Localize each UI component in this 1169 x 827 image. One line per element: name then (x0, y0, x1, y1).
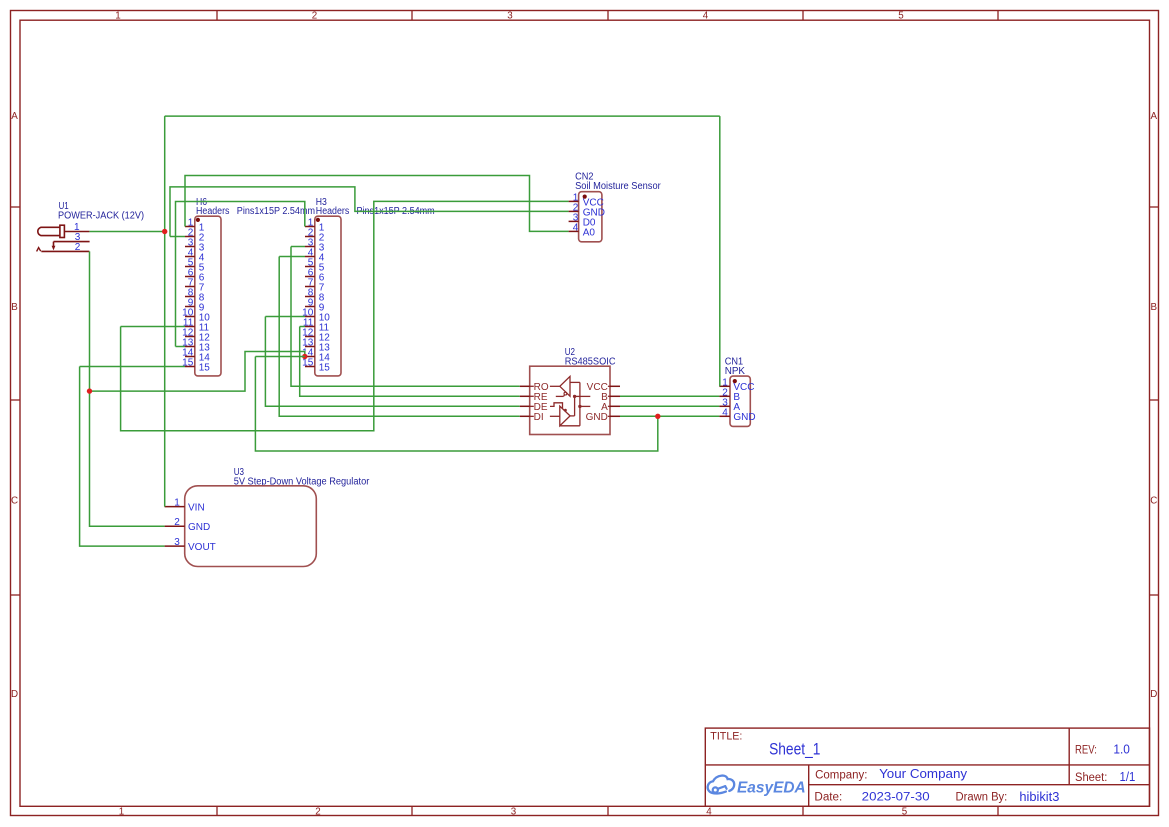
svg-text:DI: DI (534, 412, 544, 423)
U1 pin 2 stub with switch contact (37, 242, 90, 253)
svg-text:1: 1 (119, 806, 124, 817)
wire RE to U2 (300, 327, 520, 397)
H3 pin 4 (305, 248, 325, 264)
svg-text:1: 1 (115, 11, 120, 22)
svg-text:GND: GND (188, 522, 210, 533)
connector H3 labels (316, 197, 435, 217)
H3 pin 11 (303, 318, 330, 334)
svg-text:15: 15 (319, 362, 331, 373)
H6 pin 12 (182, 328, 210, 344)
U2 left pin 4 DI stub (520, 415, 530, 417)
regulator U3 body (185, 486, 317, 567)
wire 12V: U1 pin1 to junction (89, 231, 164, 233)
H3 pin 3 (305, 238, 325, 254)
IC U2 RS485SOIC labels (565, 347, 616, 367)
svg-text:B: B (1151, 302, 1158, 313)
wire DE stub to H3 pin10 (265, 316, 305, 318)
U2 left pin 2 RE stub (520, 395, 530, 397)
svg-text:5: 5 (898, 11, 904, 22)
svg-text:GND: GND (586, 412, 608, 423)
wire SENS-GND stub to H6 pin2 (170, 236, 185, 238)
U1 pin 3 stub with arrow (52, 232, 90, 251)
title block REV field (1075, 742, 1130, 756)
H3 pin 1 (305, 218, 325, 234)
svg-text:4: 4 (573, 222, 579, 233)
svg-text:1: 1 (174, 497, 180, 508)
wire B: U2 to CN1 (620, 395, 719, 397)
H3 pin 8 (305, 288, 325, 304)
CN2 pin 4 A0 (569, 222, 596, 238)
svg-text:1.0: 1.0 (1113, 742, 1130, 756)
svg-text:1/1: 1/1 (1120, 770, 1136, 784)
svg-text:2: 2 (312, 11, 317, 22)
H6 pin 5 (185, 258, 205, 274)
svg-text:Date:: Date: (814, 791, 842, 803)
wire link H6 pin13 to H3 pin1 (176, 202, 305, 347)
connector H6 body (195, 216, 221, 376)
wire GND branch to H3 pin14 (90, 352, 305, 392)
svg-text:TITLE:: TITLE: (710, 730, 742, 742)
CN1 pin 3 A (719, 397, 740, 413)
wire GND loop to U2 GND (255, 357, 657, 452)
U2 inner pin names (534, 382, 609, 423)
svg-text:15: 15 (302, 358, 314, 369)
H6 pin 8 (185, 288, 205, 304)
H3 pin 14 (302, 348, 330, 364)
wire A: U2 to CN1 (620, 405, 719, 407)
wire RO stub to H3 pin3 (291, 246, 305, 248)
connector CN1 NPK labels (725, 357, 746, 377)
wire 5V from U3 VOUT (80, 367, 165, 547)
title block TITLE field (710, 730, 820, 758)
CN1 pin 2 B (719, 387, 740, 403)
U3 pin 3 VOUT (165, 537, 216, 553)
wire 12V vertical trunk to U3 VIN (164, 116, 166, 507)
wire SENS-VCC to H6 pin11 (121, 326, 185, 328)
wire 5V to H6 pin15 (80, 366, 185, 368)
H6 pin 1 (185, 218, 205, 234)
border row letters (11, 111, 1158, 700)
svg-text:B: B (11, 302, 18, 313)
svg-text:3: 3 (174, 537, 180, 548)
power jack U1 barrel symbol (38, 225, 65, 237)
EasyEDA logo (708, 776, 806, 797)
H3 pin 15 (302, 358, 330, 374)
wire RO to U2 (291, 247, 520, 387)
U2 internal transceiver symbol (530, 376, 610, 425)
wire GND: U2 GND to CN1 GND (620, 415, 719, 417)
title block Sheet field (1075, 770, 1135, 784)
svg-text:Drawn By:: Drawn By: (956, 791, 1008, 803)
title block Company field (815, 766, 968, 781)
regulator U3 labels (234, 467, 370, 487)
H3 pin 6 (305, 268, 325, 284)
H3 pin 9 (305, 298, 325, 314)
CN2 pin 1 VCC (569, 192, 604, 208)
CN1 pin 1 VCC (719, 377, 754, 393)
wire GND from H3 pin14 west (255, 356, 304, 358)
border column ticks top/bottom (217, 11, 998, 816)
svg-text:Sheet:: Sheet: (1075, 772, 1107, 784)
svg-text:Pins1x15P 2.54mm: Pins1x15P 2.54mm (237, 206, 315, 217)
svg-text:2023-07-30: 2023-07-30 (862, 792, 930, 804)
connector H6 labels (196, 197, 315, 217)
CN1 pin-1 marker dot (733, 379, 737, 383)
H3 pin 10 (302, 308, 330, 324)
svg-text:4: 4 (703, 11, 709, 22)
H6 pin 10 (182, 308, 210, 324)
junction dot 12V at U1 pin1 (162, 229, 167, 234)
wire DI to U2 (279, 257, 520, 417)
H6 pin 14 (182, 348, 210, 364)
svg-text:D: D (1150, 689, 1157, 700)
svg-text:Sheet_1: Sheet_1 (769, 741, 820, 759)
U3 pin 1 VIN (165, 497, 205, 513)
U2 left pin 1 RO stub (520, 385, 530, 387)
svg-text:2: 2 (174, 517, 180, 528)
H3 pin 7 (305, 278, 325, 294)
U2 right pin A stub (610, 405, 620, 407)
svg-text:Soil Moisture Sensor: Soil Moisture Sensor (575, 181, 661, 192)
junction dot GND at U2 GND wire (655, 414, 660, 419)
svg-text:VOUT: VOUT (188, 542, 216, 553)
wire RE stub to H3 pin11 (300, 326, 305, 328)
connector CN2 body (579, 192, 602, 242)
junction dot GND at x89 (87, 388, 92, 393)
H3 pin 2 (305, 228, 325, 244)
H6 pin 2 (185, 228, 205, 244)
svg-text:C: C (11, 495, 18, 506)
H3 pin 5 (305, 258, 325, 274)
svg-text:EasyEDA: EasyEDA (737, 779, 806, 796)
svg-text:C: C (1150, 495, 1157, 506)
wire SENS-GND: H6 pin2 to CN2 GND (170, 187, 569, 237)
CN2 pin 3 D0 (569, 212, 596, 228)
H6 pin 3 (185, 238, 205, 254)
H6 pin-1 marker dot (196, 218, 200, 222)
U2 right pin B stub (610, 395, 620, 397)
H3 pin 13 (302, 338, 330, 354)
H6 pin 11 (183, 318, 210, 334)
wire SENS-VCC loop to CN2 VCC (121, 201, 569, 430)
svg-text:POWER-JACK (12V): POWER-JACK (12V) (58, 210, 144, 221)
svg-text:15: 15 (199, 362, 211, 373)
svg-text:3: 3 (511, 806, 517, 817)
wire 12V drop to CN1 VCC (719, 116, 721, 386)
wire DE to U2 (265, 317, 519, 407)
svg-text:5: 5 (902, 806, 908, 817)
svg-text:GND: GND (733, 412, 755, 423)
svg-text:D: D (11, 689, 18, 700)
wire 12V top run (165, 115, 720, 117)
CN2 pin-1 marker dot (583, 195, 587, 199)
svg-text:2: 2 (315, 806, 320, 817)
wire link stub to H6 pin13 (176, 346, 186, 348)
connector CN1 body (730, 376, 750, 426)
H6 pin 15 (182, 358, 210, 374)
CN1 pin 4 GND (719, 407, 755, 423)
connector H3 body (315, 216, 341, 376)
U2 right pin VCC stub (610, 385, 620, 387)
H6 pin 4 (185, 248, 205, 264)
CN2 pin 2 GND (569, 202, 605, 218)
wire A0: H6 pin1 to CN2 A0 (185, 176, 569, 232)
U1 pin 1 stub (64, 222, 89, 233)
H6 pin 7 (185, 278, 205, 294)
component U1 POWER-JACK (12V) label (58, 201, 144, 221)
title block Date / Drawn By fields (814, 790, 1059, 804)
U3 pin 2 GND (165, 517, 211, 533)
H3 pin 12 (302, 328, 330, 344)
IC U2 body (530, 366, 610, 434)
U2 right pin GND stub (610, 415, 620, 417)
wire DI stub to H3 pin4 (279, 256, 305, 258)
svg-text:Your Company: Your Company (879, 766, 968, 781)
H6 pin 6 (185, 268, 205, 284)
U2 left pin 3 DE stub (520, 405, 530, 407)
title block frame (705, 728, 1149, 806)
svg-text:A: A (11, 111, 18, 122)
svg-text:REV:: REV: (1075, 744, 1097, 756)
border column numbers (115, 11, 908, 818)
junction dot GND at H3 pin14 (302, 354, 307, 359)
wire GND: U1 pin2 down to U3 GND (90, 251, 165, 526)
H3 pin-1 marker dot (316, 218, 320, 222)
H6 pin 13 (182, 338, 210, 354)
svg-text:4: 4 (722, 407, 728, 418)
connector CN2 Soil Moisture Sensor labels (575, 172, 661, 192)
svg-text:3: 3 (507, 11, 513, 22)
svg-text:A0: A0 (583, 227, 596, 238)
svg-text:2: 2 (75, 242, 81, 253)
svg-text:hibikit3: hibikit3 (1019, 790, 1059, 804)
svg-text:Company:: Company: (815, 769, 867, 781)
border row ticks left/right (11, 207, 1159, 595)
svg-text:VIN: VIN (188, 503, 205, 514)
H6 pin 9 (185, 298, 205, 314)
svg-text:A: A (1151, 111, 1158, 122)
svg-text:4: 4 (706, 806, 712, 817)
